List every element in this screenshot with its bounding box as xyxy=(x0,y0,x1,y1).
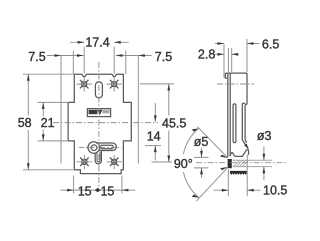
keyhole cutout inner xyxy=(91,145,97,151)
arrows 10.5 xyxy=(222,189,229,192)
dim 10.5 extension lines xyxy=(228,155,247,196)
svg-text:10.5: 10.5 xyxy=(263,183,287,197)
arrows dia3 xyxy=(263,154,266,161)
screw cross top-left xyxy=(80,80,89,89)
dia5 arrow stems xyxy=(201,148,203,178)
side view top edge xyxy=(225,73,247,78)
dim 21 line and ticks xyxy=(38,102,68,140)
dim 7.5 left line xyxy=(47,55,84,57)
rectangular window xyxy=(87,109,110,117)
dim 10.5 lines xyxy=(214,189,261,191)
side view latch bar xyxy=(242,103,247,146)
arrows 58 xyxy=(27,74,30,81)
window insert light bar xyxy=(102,110,109,114)
svg-text:6.5: 6.5 xyxy=(262,38,279,52)
svg-text:2.8: 2.8 xyxy=(198,48,215,62)
dim 2.8 lines xyxy=(215,53,239,55)
svg-text:14: 14 xyxy=(147,129,161,143)
svg-text:ø3: ø3 xyxy=(257,129,272,143)
svg-text:90°: 90° xyxy=(174,157,193,171)
svg-text:45.5: 45.5 xyxy=(162,117,186,131)
dim 17.4 lines xyxy=(70,41,128,43)
arrow 17.4 left xyxy=(78,41,85,44)
svg-text:17.4: 17.4 xyxy=(85,35,109,49)
rail hatching xyxy=(234,161,249,167)
side view sheet edges xyxy=(228,73,230,157)
front view plate outline xyxy=(68,74,131,173)
rail edge lines xyxy=(233,160,272,166)
screw cross top-right xyxy=(110,80,119,89)
oblong slot xyxy=(95,82,102,98)
svg-text:58: 58 xyxy=(18,116,32,130)
arrows dia5 xyxy=(200,151,203,158)
svg-text:7.5: 7.5 xyxy=(28,50,45,64)
window insert pointer xyxy=(97,110,102,115)
svg-text:15: 15 xyxy=(100,184,114,198)
dim 7.5 right extension lines xyxy=(126,51,139,164)
horizontal centerline mid xyxy=(53,122,158,124)
90 degree legs xyxy=(196,127,228,202)
side view foot centerline xyxy=(196,162,287,164)
arrows 15-15 xyxy=(67,189,74,192)
svg-text:15: 15 xyxy=(78,184,92,198)
keyhole cutout outer xyxy=(88,142,100,154)
dim 2.8 extension lines xyxy=(228,48,231,72)
arrows 7.5 right xyxy=(116,54,123,57)
arrowheads 90 deg arc xyxy=(192,129,199,132)
serrated grip bar xyxy=(230,171,247,175)
arrows 7.5 left xyxy=(55,54,62,57)
arrows 21 xyxy=(42,102,45,109)
side view clip profile xyxy=(230,149,248,156)
arrows 6.5 xyxy=(218,42,225,45)
arrows 14 xyxy=(154,115,157,122)
screw cross bottom-right xyxy=(110,158,119,167)
dim 14 stems and tick xyxy=(145,103,161,161)
dim 6.5 lines xyxy=(215,43,260,45)
arrow 17.4 right xyxy=(114,41,121,44)
side view right edge and step xyxy=(245,73,247,104)
sheet bend section (solid) xyxy=(228,159,232,168)
arrows 2.8 xyxy=(218,53,225,56)
dim 7.5 right line xyxy=(116,55,152,57)
dim 17.4 extension lines xyxy=(84,47,114,74)
screw cross bottom-left xyxy=(80,158,89,167)
dim 6.5 extension lines xyxy=(224,39,247,78)
keyhole centerline xyxy=(79,147,122,149)
diamond 15-15 xyxy=(95,188,101,192)
dia5 ticks xyxy=(194,157,209,168)
dim 15-15 lines xyxy=(61,176,136,194)
dim 45.5 line and ticks xyxy=(140,84,174,162)
svg-text:21: 21 xyxy=(41,116,55,130)
dim dia3 stems xyxy=(263,147,265,181)
dim 58 line and ticks xyxy=(23,74,73,170)
svg-text:7.5: 7.5 xyxy=(155,50,172,64)
90 degree arc xyxy=(183,129,199,198)
arrowheads 90 deg legs xyxy=(220,155,228,158)
arrows 45.5 xyxy=(167,84,170,91)
dim 7.5 left extension lines xyxy=(61,51,73,164)
side view inner slot xyxy=(233,104,236,143)
svg-text:ø5: ø5 xyxy=(194,135,209,149)
side view top centerline xyxy=(217,83,254,85)
cross centerlines bottom xyxy=(77,161,123,163)
cross centerlines top xyxy=(77,83,123,85)
window insert dark bar xyxy=(89,110,98,114)
latch leader arrowhead xyxy=(244,144,249,150)
vertical centerline front xyxy=(98,62,100,191)
